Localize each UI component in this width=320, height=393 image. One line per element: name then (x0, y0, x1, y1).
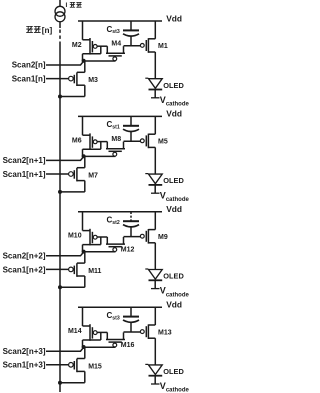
svg-text:Scan2[n+3]: Scan2[n+3] (3, 347, 46, 356)
svg-text:Vdd: Vdd (166, 300, 182, 310)
svg-text:M2: M2 (72, 42, 82, 49)
svg-text:Vdd: Vdd (166, 109, 182, 119)
svg-text:OLED: OLED (163, 81, 184, 90)
svg-text:I: I (66, 2, 68, 9)
svg-text:Scan2[n+2]: Scan2[n+2] (3, 252, 46, 261)
svg-text:Vdd: Vdd (166, 13, 182, 23)
svg-text:M10: M10 (68, 233, 82, 240)
svg-text:OLED: OLED (163, 367, 184, 376)
svg-text:M8: M8 (111, 136, 121, 143)
svg-text:Scan2[n+1]: Scan2[n+1] (3, 156, 46, 165)
svg-text:Scan2[n]: Scan2[n] (12, 61, 46, 70)
svg-text:M15: M15 (88, 363, 102, 370)
svg-text:M1: M1 (158, 43, 168, 50)
svg-text:M16: M16 (121, 342, 135, 349)
svg-text:M5: M5 (158, 139, 168, 146)
svg-text:M11: M11 (88, 268, 101, 275)
svg-text:M6: M6 (72, 137, 82, 144)
svg-text:M4: M4 (111, 40, 121, 47)
svg-text:Vdd: Vdd (166, 204, 182, 214)
svg-text:M7: M7 (88, 173, 98, 180)
svg-text:M13: M13 (158, 329, 172, 336)
svg-text:M3: M3 (88, 77, 98, 84)
svg-text:OLED: OLED (163, 272, 184, 281)
svg-text:Scan1[n+2]: Scan1[n+2] (3, 265, 46, 274)
svg-text:Scan1[n+1]: Scan1[n+1] (3, 170, 46, 179)
svg-text:Scan1[n+3]: Scan1[n+3] (3, 361, 46, 370)
svg-text:M9: M9 (158, 234, 168, 241)
svg-text:[n]: [n] (42, 26, 53, 35)
svg-text:OLED: OLED (163, 176, 184, 185)
svg-text:Scan1[n]: Scan1[n] (12, 75, 46, 84)
svg-text:M14: M14 (68, 328, 82, 335)
svg-text:M12: M12 (121, 246, 135, 253)
